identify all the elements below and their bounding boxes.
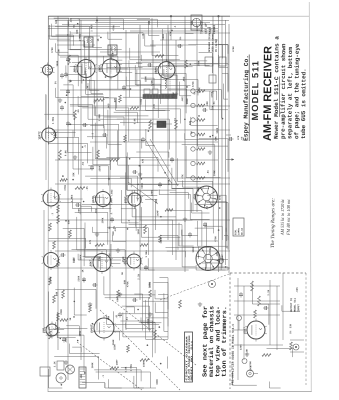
wire junction bbox=[209, 136, 211, 138]
resistor bbox=[175, 120, 178, 129]
wire junction bbox=[141, 178, 143, 180]
wire bbox=[158, 190, 160, 195]
resistor bbox=[251, 281, 254, 291]
wire junction bbox=[159, 326, 161, 328]
wire junction bbox=[139, 165, 141, 167]
electrolytic capacitor block bbox=[157, 121, 166, 128]
svg-text:INPUT: INPUT bbox=[297, 304, 300, 312]
dashed chassis line bbox=[77, 342, 142, 390]
svg-text:.002: .002 bbox=[111, 189, 114, 195]
wire bbox=[221, 16, 223, 268]
wire junction bbox=[147, 344, 149, 346]
wire bbox=[55, 26, 120, 28]
svg-text:6X5: 6X5 bbox=[219, 195, 222, 200]
ground bbox=[199, 302, 201, 304]
resistor bbox=[95, 99, 104, 102]
wire bbox=[178, 223, 180, 246]
wire bbox=[82, 382, 105, 384]
svg-text:1 MEG: 1 MEG bbox=[145, 250, 148, 258]
wire bbox=[90, 125, 104, 127]
wire bbox=[94, 369, 141, 371]
wire bbox=[193, 180, 213, 182]
wire bbox=[130, 30, 218, 32]
svg-text:150K: 150K bbox=[143, 361, 146, 367]
wire junction bbox=[83, 201, 85, 203]
wire junction bbox=[190, 63, 192, 65]
svg-text:1 MEG: 1 MEG bbox=[98, 114, 101, 122]
capacitor bbox=[75, 204, 77, 206]
tube V7 6SK7 bbox=[93, 254, 111, 272]
pilot lamp bbox=[66, 365, 75, 374]
wire junction bbox=[148, 130, 150, 132]
tube V13 6SJ7 pre-amp bbox=[247, 321, 265, 339]
wire bbox=[282, 273, 284, 340]
capacitor bbox=[228, 138, 230, 140]
ground bbox=[159, 122, 161, 124]
wire bbox=[184, 28, 186, 33]
resistor bbox=[117, 290, 120, 298]
svg-text:6.8K: 6.8K bbox=[133, 118, 136, 124]
svg-text:AM 535 kc to 1720 kc: AM 535 kc to 1720 kc bbox=[280, 199, 285, 236]
svg-text:1 MEG: 1 MEG bbox=[90, 24, 93, 32]
wire arrow bbox=[226, 159, 234, 161]
resistor bbox=[140, 359, 149, 362]
wire bbox=[83, 255, 101, 257]
wire bbox=[87, 36, 89, 69]
svg-text:1 MEG: 1 MEG bbox=[110, 198, 113, 206]
tube V5 6AT6 bbox=[96, 192, 111, 207]
wire bbox=[107, 110, 109, 145]
pre-amplifier dashed box bbox=[230, 272, 306, 274]
wire bbox=[154, 290, 156, 299]
resistor bbox=[97, 150, 100, 158]
wire bbox=[147, 258, 149, 270]
wire bbox=[60, 56, 140, 58]
wire bbox=[134, 65, 136, 85]
wire bbox=[51, 24, 53, 37]
svg-text:.01: .01 bbox=[218, 258, 221, 263]
socket S1 band switch bbox=[196, 186, 218, 208]
wire bbox=[55, 288, 96, 290]
wire bbox=[73, 288, 75, 315]
wire junction bbox=[70, 124, 72, 126]
wire bbox=[231, 371, 233, 385]
wire bbox=[166, 246, 211, 248]
svg-text:33K: 33K bbox=[98, 256, 101, 261]
resistor bbox=[110, 367, 119, 370]
svg-text:2.2K: 2.2K bbox=[267, 289, 270, 295]
wire bbox=[44, 113, 74, 115]
svg-text:100K: 100K bbox=[162, 33, 165, 39]
svg-text:100K: 100K bbox=[72, 257, 75, 263]
svg-text:10MF: 10MF bbox=[160, 237, 163, 243]
svg-text:47K: 47K bbox=[89, 239, 92, 244]
resistor bbox=[258, 296, 261, 306]
wire bbox=[57, 44, 95, 46]
wire junction bbox=[212, 135, 214, 137]
wire bbox=[160, 234, 178, 236]
wire bbox=[179, 82, 181, 96]
wire bbox=[70, 105, 230, 107]
wire bbox=[94, 330, 120, 332]
wire bbox=[72, 346, 81, 348]
resistor bbox=[59, 150, 62, 160]
wire junction bbox=[83, 280, 85, 282]
wire bbox=[45, 95, 47, 180]
dial cord line bbox=[145, 139, 172, 184]
dashed chassis line bbox=[160, 274, 229, 300]
wire bbox=[90, 141, 218, 143]
resistor bbox=[74, 110, 77, 120]
wire bbox=[107, 227, 148, 229]
wire bbox=[121, 366, 137, 368]
wire bbox=[76, 217, 78, 250]
wire junction bbox=[127, 228, 129, 230]
wire bbox=[161, 219, 173, 221]
svg-text:470K: 470K bbox=[112, 25, 115, 31]
svg-text:.01: .01 bbox=[84, 70, 87, 75]
svg-text:470K: 470K bbox=[64, 184, 67, 190]
svg-text:.005: .005 bbox=[95, 208, 98, 214]
schematic label box bbox=[185, 332, 193, 382]
wire junction bbox=[67, 34, 69, 36]
wire bbox=[170, 192, 189, 194]
trimmer bbox=[219, 259, 224, 264]
IF transformer Z2 bbox=[108, 45, 117, 55]
wire bbox=[43, 210, 45, 330]
resistor bbox=[53, 295, 56, 303]
wire bbox=[185, 146, 187, 178]
tube V4 6AL5 in box bbox=[191, 15, 202, 30]
wire bbox=[201, 262, 221, 264]
resistor bbox=[60, 179, 67, 182]
wire bbox=[95, 107, 97, 116]
wire bbox=[188, 44, 222, 46]
wire bbox=[117, 118, 170, 120]
svg-text:33K: 33K bbox=[112, 52, 115, 57]
svg-text:.002: .002 bbox=[167, 94, 170, 100]
wire junction bbox=[225, 266, 227, 268]
wire bbox=[218, 43, 228, 45]
ground bbox=[209, 150, 211, 152]
wire bbox=[136, 62, 160, 64]
svg-text:10MF: 10MF bbox=[137, 228, 140, 234]
page border left bbox=[47, 16, 49, 120]
svg-text:6.8K: 6.8K bbox=[246, 348, 249, 354]
tube V14 6SQ7 bbox=[43, 190, 59, 206]
resistor bbox=[57, 215, 60, 224]
wire bbox=[54, 17, 69, 19]
dial cord line bbox=[150, 139, 178, 186]
tube V15 6SA7 bbox=[44, 253, 59, 268]
page border right bbox=[309, 2, 311, 392]
wire bbox=[128, 60, 130, 67]
resistor bbox=[89, 305, 92, 312]
wire bbox=[70, 32, 230, 34]
resistor bbox=[149, 120, 152, 129]
ground bbox=[246, 352, 248, 354]
wire bbox=[82, 107, 129, 109]
svg-text:2.2K: 2.2K bbox=[137, 273, 140, 279]
dial lamps label box bbox=[233, 218, 244, 236]
wire junction bbox=[62, 175, 64, 177]
resistor bbox=[119, 95, 122, 102]
wire bbox=[145, 99, 147, 110]
capacitor bbox=[61, 73, 63, 75]
wire bbox=[88, 165, 108, 167]
wire junction bbox=[137, 309, 139, 311]
resistor bbox=[179, 300, 182, 308]
wire junction bbox=[100, 37, 102, 39]
svg-text:IN FILTER: IN FILTER bbox=[215, 39, 218, 52]
wire bbox=[202, 90, 217, 92]
svg-text:68K: 68K bbox=[189, 120, 192, 125]
wire junction bbox=[49, 71, 51, 73]
wire bbox=[207, 194, 226, 196]
svg-text:220K: 220K bbox=[77, 275, 80, 281]
wire bbox=[140, 55, 142, 61]
wire bbox=[70, 104, 93, 106]
svg-text:10MF: 10MF bbox=[156, 210, 159, 216]
wire junction bbox=[137, 184, 139, 186]
wire bbox=[204, 225, 222, 227]
output connector bbox=[293, 344, 299, 350]
svg-text:TO GRID: TO GRID bbox=[201, 21, 204, 34]
wire bbox=[90, 177, 131, 179]
svg-text:68K: 68K bbox=[55, 291, 58, 296]
wire bbox=[54, 88, 56, 97]
wire bbox=[223, 84, 225, 100]
wire junction bbox=[61, 384, 63, 386]
capacitor bbox=[67, 121, 69, 123]
wire bbox=[158, 294, 168, 296]
wire bbox=[228, 24, 230, 273]
wire bbox=[106, 315, 108, 325]
wire bbox=[55, 183, 230, 185]
wire bbox=[195, 203, 214, 205]
wire bbox=[170, 16, 172, 40]
resistor bbox=[144, 225, 147, 234]
wire bbox=[68, 344, 70, 354]
wire bbox=[167, 32, 169, 64]
capacitor bbox=[91, 165, 93, 167]
wire bbox=[60, 89, 195, 91]
svg-text:47K: 47K bbox=[169, 31, 172, 36]
wire bbox=[114, 111, 138, 113]
wire bbox=[104, 116, 124, 118]
wire bbox=[209, 91, 211, 110]
wire bbox=[153, 281, 168, 283]
wire junction bbox=[222, 259, 224, 261]
wire bbox=[152, 40, 154, 335]
wire bbox=[96, 371, 151, 373]
wire bbox=[105, 297, 149, 299]
jack bbox=[242, 359, 247, 364]
svg-text:.01: .01 bbox=[82, 161, 85, 166]
wire bbox=[62, 24, 225, 26]
svg-text:47K: 47K bbox=[181, 174, 184, 179]
wire bbox=[48, 292, 50, 330]
wire bbox=[85, 175, 138, 177]
resistor bbox=[69, 230, 72, 238]
svg-text:68K: 68K bbox=[116, 297, 119, 302]
junction dot on bus bbox=[170, 15, 172, 17]
wire junction bbox=[219, 207, 221, 209]
wire bbox=[54, 356, 98, 358]
svg-text:33K: 33K bbox=[289, 323, 292, 328]
wire bbox=[225, 20, 227, 265]
tube V1 6BA6 bbox=[77, 60, 95, 78]
wire bbox=[69, 31, 71, 50]
tube V8 6C4 bbox=[127, 254, 141, 268]
wire junction bbox=[142, 34, 144, 36]
wire bbox=[127, 165, 129, 185]
svg-text:220K: 220K bbox=[60, 308, 63, 314]
tube V12 converter bbox=[42, 128, 56, 142]
wire bbox=[136, 151, 169, 153]
wire bbox=[276, 286, 278, 350]
wire bbox=[46, 334, 84, 336]
wire bbox=[120, 177, 230, 179]
capacitor bbox=[111, 217, 113, 219]
svg-text:1 MEG: 1 MEG bbox=[130, 364, 133, 372]
svg-text:.01: .01 bbox=[206, 206, 209, 211]
wire bbox=[106, 66, 129, 68]
page border bottom bbox=[48, 391, 312, 393]
wire bbox=[196, 30, 198, 212]
wire junction bbox=[55, 134, 57, 136]
svg-text:220K: 220K bbox=[196, 25, 199, 31]
wire bbox=[167, 250, 186, 252]
resistor bbox=[110, 159, 119, 162]
svg-text:68K: 68K bbox=[80, 374, 83, 379]
wire bbox=[123, 96, 159, 98]
wire junction bbox=[83, 79, 85, 81]
svg-text:68K: 68K bbox=[206, 101, 209, 106]
wire bbox=[139, 321, 155, 323]
svg-text:.01: .01 bbox=[213, 101, 216, 106]
svg-text:470K: 470K bbox=[232, 46, 235, 52]
wire bbox=[267, 348, 293, 350]
wire junction bbox=[74, 301, 76, 303]
wire bbox=[144, 34, 146, 46]
wire bbox=[78, 18, 124, 20]
wire bbox=[121, 313, 153, 315]
wire bbox=[181, 230, 183, 236]
wire bbox=[140, 317, 142, 322]
wire bbox=[72, 61, 91, 63]
tube V11 FM front end bbox=[43, 65, 53, 75]
svg-text:68K: 68K bbox=[67, 219, 70, 224]
wire bbox=[234, 344, 283, 346]
resistor bbox=[49, 277, 52, 285]
svg-text:.002: .002 bbox=[181, 96, 184, 102]
capacitor bbox=[159, 182, 161, 184]
svg-text:220K: 220K bbox=[151, 190, 154, 196]
svg-text:150K: 150K bbox=[168, 61, 171, 67]
wire bbox=[216, 266, 228, 268]
wire junction bbox=[77, 340, 79, 342]
resistor bbox=[154, 330, 157, 339]
wire bbox=[218, 16, 220, 272]
wire bbox=[87, 136, 107, 138]
wire bbox=[77, 254, 79, 260]
ground bbox=[119, 292, 121, 294]
wire bbox=[139, 25, 141, 300]
wire bbox=[92, 39, 94, 48]
svg-text:.01: .01 bbox=[174, 118, 177, 123]
svg-text:470K: 470K bbox=[149, 281, 152, 287]
svg-text:2.2K: 2.2K bbox=[53, 361, 56, 367]
svg-text:68K: 68K bbox=[148, 20, 151, 25]
wire junction bbox=[130, 88, 132, 90]
svg-text:14: 14 bbox=[54, 20, 58, 24]
svg-text:68K: 68K bbox=[190, 20, 193, 25]
svg-text:12AT7: 12AT7 bbox=[38, 131, 41, 140]
svg-text:220K: 220K bbox=[240, 344, 243, 350]
svg-text:FM 88 mc to 108 mc: FM 88 mc to 108 mc bbox=[286, 199, 291, 236]
wire bbox=[71, 199, 73, 209]
wire bbox=[234, 300, 280, 302]
svg-text:68K: 68K bbox=[114, 97, 117, 102]
wire bbox=[154, 302, 156, 312]
wire junction bbox=[65, 102, 67, 104]
wire bbox=[57, 16, 59, 350]
capacitor bbox=[240, 292, 242, 294]
wire junction bbox=[77, 23, 79, 25]
wire bbox=[225, 228, 227, 248]
resistor bbox=[75, 187, 85, 190]
svg-text:6BE6: 6BE6 bbox=[99, 65, 102, 72]
wire junction bbox=[70, 80, 72, 82]
svg-text:.05: .05 bbox=[77, 109, 80, 114]
svg-text:6V6GT: 6V6GT bbox=[91, 324, 94, 333]
wire bbox=[269, 280, 271, 345]
wire bbox=[104, 97, 116, 99]
capacitor bbox=[92, 284, 94, 286]
wire bbox=[89, 79, 91, 90]
wire bbox=[205, 201, 227, 203]
switch contact chain with resistors bbox=[191, 89, 195, 93]
svg-text:470K: 470K bbox=[126, 281, 129, 287]
wire bbox=[92, 147, 94, 165]
wire bbox=[81, 96, 103, 98]
svg-text:.005: .005 bbox=[65, 337, 68, 343]
wire bbox=[70, 66, 82, 68]
wire bbox=[136, 70, 138, 86]
wire junction bbox=[65, 220, 67, 222]
resistor bbox=[155, 55, 164, 58]
wire bbox=[48, 35, 100, 37]
wire bbox=[126, 152, 128, 190]
wire bbox=[66, 325, 79, 327]
capacitor bbox=[202, 109, 204, 111]
wire bbox=[165, 33, 167, 61]
capacitor bbox=[61, 105, 63, 107]
svg-text:6BA6: 6BA6 bbox=[155, 67, 158, 74]
ground bbox=[117, 248, 119, 250]
wire bbox=[183, 246, 199, 248]
wire bbox=[104, 383, 106, 388]
wire bbox=[80, 20, 82, 360]
wire bbox=[55, 250, 230, 252]
resistor bbox=[95, 244, 104, 247]
wire bbox=[84, 223, 86, 258]
svg-text:.005: .005 bbox=[216, 251, 219, 257]
wire junction bbox=[92, 323, 94, 325]
wire bbox=[68, 79, 94, 81]
svg-text:68K: 68K bbox=[76, 29, 79, 34]
